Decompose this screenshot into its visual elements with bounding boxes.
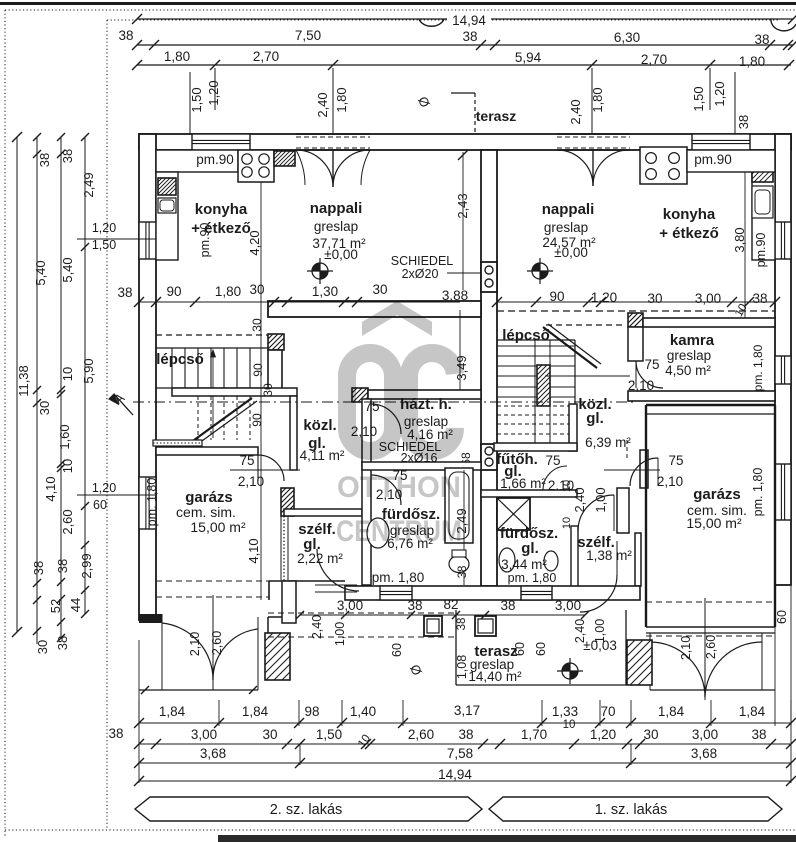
- svg-text:38: 38: [117, 285, 132, 300]
- door opening nappali-left: [296, 136, 370, 149]
- svg-text:±0,00: ±0,00: [324, 247, 358, 262]
- svg-text:5,40: 5,40: [33, 260, 48, 285]
- svg-text:1,20: 1,20: [712, 81, 727, 106]
- section marker A: [114, 394, 133, 415]
- svg-text:cem. sim.: cem. sim.: [176, 504, 236, 520]
- svg-text:konyha: konyha: [663, 206, 716, 223]
- window left wall pm90: [139, 222, 156, 259]
- svg-text:pm.90: pm.90: [196, 152, 234, 167]
- svg-text:14,40 m²: 14,40 m²: [468, 669, 522, 684]
- dashed lintel lines bottom left: [156, 580, 269, 582]
- party wall: [481, 150, 497, 586]
- hatch box right of cooktop left: [274, 151, 295, 166]
- bottom row 3: [139, 762, 791, 764]
- kazan boiler: [497, 498, 530, 530]
- svg-text:4,10: 4,10: [43, 476, 58, 501]
- svg-text:38: 38: [500, 598, 515, 613]
- svg-text:44: 44: [68, 598, 83, 612]
- svg-text:90: 90: [250, 413, 264, 427]
- stairs left treads: [156, 347, 268, 349]
- svg-text:3,17: 3,17: [454, 703, 480, 718]
- svg-text:konyha: konyha: [195, 201, 248, 218]
- svg-text:4,20: 4,20: [247, 230, 262, 255]
- svg-text:3,00: 3,00: [337, 598, 363, 613]
- svg-text:pm. 1,80: pm. 1,80: [372, 570, 425, 585]
- wall stair east: [268, 350, 282, 390]
- outer dotted border: [4, 10, 6, 836]
- wall szelf-left north: [284, 509, 362, 516]
- level mark terasz: [557, 658, 583, 684]
- svg-text:10: 10: [561, 517, 573, 529]
- svg-text:75: 75: [545, 453, 560, 468]
- garage left door arcs: [162, 623, 213, 680]
- left exterior wall: [139, 134, 156, 620]
- french door arcs nappali-left: [296, 150, 333, 187]
- svg-text:1,60: 1,60: [57, 424, 72, 449]
- svg-text:1,50: 1,50: [92, 238, 116, 252]
- chimney schiedel 2x16: [481, 444, 497, 470]
- window bottom left bath: [380, 586, 412, 600]
- svg-text:+ étkező: + étkező: [659, 225, 719, 242]
- window right wall pm90: [775, 222, 791, 259]
- cooktop left: [238, 150, 274, 182]
- svg-text:2,10: 2,10: [679, 636, 693, 660]
- svg-text:pm.90: pm.90: [198, 223, 212, 258]
- svg-text:2,70: 2,70: [641, 52, 667, 67]
- french door arcs nappali-right: [557, 150, 593, 186]
- garage right front wall: [646, 626, 775, 628]
- watermark house chevron: [362, 301, 432, 336]
- svg-text:38: 38: [457, 566, 469, 579]
- svg-text:2,40: 2,40: [572, 487, 587, 512]
- dashed lintel garage right: [646, 601, 775, 603]
- extension lines bottom: [138, 700, 140, 726]
- dim row B 38-750-38-630-38: [137, 44, 793, 46]
- svg-text:1,20: 1,20: [206, 80, 221, 105]
- wall futoh north: [494, 443, 577, 451]
- svg-text:38: 38: [456, 618, 468, 631]
- kamra west wall: [628, 327, 643, 361]
- svg-text:OTTHON: OTTHON: [337, 471, 461, 504]
- stairs left arrow: [212, 352, 214, 438]
- left col total 11,38: [16, 137, 18, 632]
- svg-text:15,00 m²: 15,00 m²: [686, 515, 742, 531]
- bottom wall main band: [345, 586, 640, 600]
- dim 2,49 rot bath: [463, 470, 465, 585]
- svg-text:2,40: 2,40: [315, 92, 330, 117]
- svg-text:pm. 1,80: pm. 1,80: [751, 344, 765, 391]
- wc left: [449, 556, 469, 573]
- dashed lines bottom middle: [268, 612, 456, 614]
- svg-text:lépcső: lépcső: [156, 351, 204, 368]
- svg-text:kamra: kamra: [670, 332, 715, 349]
- hatch band stairs right: [537, 365, 550, 406]
- window konyha-right top: [692, 134, 750, 150]
- svg-text:75: 75: [239, 453, 254, 468]
- label hexagon 2.sz lakas: [135, 797, 482, 821]
- svg-text:1,38 m²: 1,38 m²: [586, 548, 632, 563]
- svg-text:2. sz. lakás: 2. sz. lakás: [270, 802, 343, 818]
- svg-text:15,00 m²: 15,00 m²: [190, 519, 246, 535]
- svg-text:1,20: 1,20: [92, 221, 116, 235]
- svg-text:6,39 m²: 6,39 m²: [585, 435, 631, 450]
- counter top wall right: [687, 150, 775, 172]
- svg-text:4,11 m²: 4,11 m²: [300, 448, 345, 463]
- svg-text:lépcső: lépcső: [502, 327, 550, 344]
- wall garage north left: [156, 447, 258, 455]
- svg-text:60: 60: [513, 642, 527, 656]
- svg-text:±0,00: ±0,00: [554, 245, 588, 260]
- chimney schiedel 2x20: [481, 262, 497, 292]
- svg-text:10: 10: [561, 480, 573, 492]
- counter top wall left: [156, 150, 238, 172]
- svg-text:3,44 m²: 3,44 m²: [501, 557, 547, 572]
- door garage left: [258, 455, 284, 481]
- svg-text:2,60: 2,60: [408, 727, 434, 742]
- svg-text:1,80: 1,80: [590, 87, 605, 112]
- dim row total 14,94 top: [137, 18, 793, 20]
- sink left: [158, 198, 176, 213]
- door futoh: [543, 466, 567, 490]
- svg-text:1,33: 1,33: [552, 704, 578, 719]
- svg-text:3,00: 3,00: [555, 598, 581, 613]
- bathtub left: [445, 468, 473, 543]
- svg-text:2,10: 2,10: [657, 474, 683, 489]
- svg-text:3,68: 3,68: [691, 746, 717, 761]
- svg-text:38: 38: [736, 115, 751, 129]
- section line A-A: [133, 401, 637, 403]
- svg-text:90: 90: [251, 363, 265, 377]
- svg-text:1,80: 1,80: [215, 284, 241, 299]
- svg-text:2,60: 2,60: [704, 635, 718, 659]
- wc right: [544, 551, 558, 571]
- door hazth: [371, 404, 401, 434]
- window right wall garage pm180: [775, 464, 791, 520]
- inner dotted border: [106, 20, 108, 830]
- svg-text:1,30: 1,30: [312, 284, 338, 299]
- svg-text:2,60: 2,60: [210, 631, 224, 655]
- watermark O letter: [347, 353, 393, 451]
- svg-text:1,00: 1,00: [333, 622, 347, 646]
- svg-text:pm.90: pm.90: [754, 233, 768, 268]
- svg-text:11,38: 11,38: [16, 365, 31, 397]
- svg-text:30: 30: [372, 282, 387, 297]
- dim 2,43 line: [462, 152, 464, 290]
- svg-text:2,43: 2,43: [455, 193, 470, 218]
- window right wall kamra pm180: [775, 356, 791, 384]
- top exterior wall: [139, 134, 791, 150]
- garage right door arcs: [650, 642, 705, 697]
- door szelf right: [578, 495, 614, 531]
- svg-text:90: 90: [549, 289, 564, 304]
- svg-text:38: 38: [55, 636, 70, 650]
- svg-text:1,08: 1,08: [455, 655, 469, 679]
- left col 3: [60, 137, 62, 638]
- label hexagon 1.sz lakas: [489, 797, 782, 821]
- svg-text:75: 75: [644, 357, 659, 372]
- svg-text:5,40: 5,40: [60, 257, 75, 282]
- watermark C letter: [409, 353, 455, 451]
- svg-text:60: 60: [775, 610, 789, 624]
- washbasin left: [367, 518, 389, 548]
- svg-text:1,50: 1,50: [189, 87, 204, 112]
- svg-text:3,68: 3,68: [200, 746, 226, 761]
- dotted strip szelf left: [283, 516, 285, 580]
- post terrace 2: [475, 616, 496, 636]
- svg-text:30: 30: [643, 727, 658, 742]
- level mark nappali left: [307, 258, 333, 284]
- dims 3,00 38 82 row: [300, 614, 585, 616]
- svg-text:terasz: terasz: [476, 108, 516, 124]
- svg-text:30: 30: [261, 383, 275, 397]
- dashed stair line left: [156, 334, 268, 336]
- dotted strip garage left: [153, 440, 202, 446]
- svg-text:1,84: 1,84: [739, 704, 766, 719]
- svg-text:60: 60: [534, 642, 548, 656]
- svg-text:60: 60: [93, 498, 107, 512]
- garage right inner outline: [645, 405, 647, 627]
- dashed line stairs right: [546, 324, 626, 326]
- kamra south wall / garage north: [628, 391, 775, 401]
- svg-text:1,84: 1,84: [658, 704, 685, 719]
- svg-text:38: 38: [407, 598, 422, 613]
- wall szelf east upper: [617, 488, 629, 533]
- svg-text:2,49: 2,49: [81, 172, 96, 197]
- svg-text:2,40: 2,40: [573, 619, 587, 643]
- svg-text:pm. 1,80: pm. 1,80: [508, 571, 557, 585]
- svg-text:38: 38: [754, 32, 769, 47]
- garage right sill line: [650, 689, 775, 691]
- svg-text:7,50: 7,50: [295, 28, 321, 43]
- svg-text:98: 98: [304, 704, 319, 719]
- svg-text:30: 30: [35, 640, 50, 654]
- stairs left cut line: [190, 398, 252, 443]
- door kamra: [636, 361, 663, 388]
- wall kozl right west: [569, 404, 577, 451]
- garage left front wall: [139, 614, 162, 623]
- svg-text:greslap: greslap: [544, 220, 588, 235]
- svg-text:30: 30: [647, 291, 662, 306]
- svg-text:1,20: 1,20: [92, 481, 116, 495]
- svg-text:60: 60: [390, 643, 404, 657]
- kamra north wall: [643, 318, 775, 327]
- extension lines top rows: [214, 68, 216, 110]
- window-dim leader konyha left: [77, 238, 156, 240]
- szelf-left step walls: [269, 580, 345, 582]
- svg-text:2xØ20: 2xØ20: [402, 267, 439, 281]
- dim row C 180-270-594-270-180: [137, 64, 791, 66]
- svg-text:1,70: 1,70: [521, 727, 547, 742]
- svg-text:2,70: 2,70: [253, 49, 279, 64]
- entrance door right unit: [580, 575, 617, 612]
- svg-text:1,84: 1,84: [159, 704, 186, 719]
- extension lines plan to rows: [138, 640, 140, 724]
- threshold szelf left: [315, 584, 357, 586]
- page top border line: [0, 2, 796, 5]
- svg-text:3,00: 3,00: [191, 727, 217, 742]
- wall nappali-south left unit: [268, 301, 481, 317]
- svg-text:5,94: 5,94: [515, 50, 542, 65]
- drainer hatch left: [158, 178, 176, 195]
- svg-text:1,50: 1,50: [316, 727, 342, 742]
- svg-text:14,94: 14,94: [438, 767, 472, 782]
- svg-text:52: 52: [48, 599, 63, 613]
- door opening nappali-right: [557, 136, 630, 149]
- svg-text:1,80: 1,80: [164, 49, 190, 64]
- cooktop right: [640, 147, 687, 184]
- counter konyha right: [752, 172, 775, 260]
- svg-text:38: 38: [108, 726, 123, 741]
- svg-text:38: 38: [60, 149, 75, 163]
- svg-text:1,84: 1,84: [242, 704, 269, 719]
- svg-text:pm. 1,80: pm. 1,80: [145, 478, 159, 527]
- svg-text:75: 75: [668, 453, 683, 468]
- svg-text:82: 82: [443, 597, 458, 612]
- bottom row 4: [139, 780, 791, 782]
- svg-text:nappali: nappali: [542, 201, 595, 218]
- svg-text:közl.: közl.: [303, 417, 336, 434]
- svg-text:38: 38: [458, 727, 473, 742]
- svg-text:1,20: 1,20: [590, 727, 616, 742]
- svg-text:pm. 1,80: pm. 1,80: [751, 468, 765, 517]
- svg-text:38: 38: [751, 727, 766, 742]
- svg-text:nappali: nappali: [310, 200, 363, 217]
- counter konyha left: [156, 172, 178, 260]
- pillar szelf left: [281, 488, 294, 516]
- stairs left lower flight: [197, 396, 199, 440]
- svg-text:3,80: 3,80: [732, 227, 747, 252]
- wall fuerdo-szelf right: [481, 490, 577, 497]
- svg-text:1,80: 1,80: [739, 54, 765, 69]
- svg-text:70: 70: [600, 704, 615, 719]
- post X left: [265, 633, 290, 680]
- svg-text:5,90: 5,90: [81, 358, 96, 383]
- svg-text:1,40: 1,40: [350, 704, 376, 719]
- wall kozl west left: [290, 396, 297, 470]
- svg-text:1,66 m²: 1,66 m²: [500, 476, 546, 491]
- svg-text:1,20: 1,20: [591, 290, 617, 305]
- svg-text:38: 38: [752, 291, 767, 306]
- svg-text:90: 90: [166, 284, 181, 299]
- stairs right cut line: [543, 327, 597, 368]
- svg-text:30: 30: [249, 282, 264, 297]
- svg-text:3,00: 3,00: [692, 727, 718, 742]
- svg-text:30: 30: [250, 318, 264, 332]
- kamra pillar hatch: [628, 313, 643, 327]
- svg-text:30: 30: [37, 401, 52, 415]
- post X right: [627, 640, 652, 685]
- svg-text:38: 38: [37, 153, 52, 167]
- dim row y302 right: [497, 301, 775, 303]
- svg-text:1. sz. lakás: 1. sz. lakás: [595, 802, 668, 818]
- svg-text:38: 38: [118, 28, 133, 43]
- washbasin right: [499, 548, 515, 572]
- level mark nappali right: [527, 258, 553, 284]
- door garage right: [630, 458, 658, 486]
- bottom row 1: [139, 722, 791, 724]
- svg-text:3,00: 3,00: [695, 291, 721, 306]
- svg-text:7,58: 7,58: [447, 746, 473, 761]
- right exterior wall: [775, 134, 791, 585]
- svg-text:gl.: gl.: [586, 410, 604, 427]
- bottom row 2: [139, 743, 791, 745]
- svg-text:30: 30: [262, 727, 277, 742]
- svg-text:1,50: 1,50: [691, 86, 706, 111]
- post terrace 1: [424, 616, 442, 636]
- svg-text:3,88: 3,88: [442, 288, 468, 303]
- terasz top leader: [451, 92, 475, 94]
- garage left jambs: [257, 617, 259, 690]
- window-dim leader garage left: [77, 494, 156, 496]
- svg-text:4,10: 4,10: [246, 538, 261, 563]
- window bottom right bath: [521, 586, 552, 600]
- terasz slab: [455, 610, 457, 685]
- svg-text:2,10: 2,10: [188, 632, 202, 656]
- bottom scan strip: [218, 835, 796, 842]
- dashed line kamra top: [497, 310, 775, 312]
- svg-text:10: 10: [60, 367, 75, 381]
- stairs right treads: [497, 345, 575, 347]
- svg-text:1,00: 1,00: [593, 487, 608, 512]
- dim row y302 left: [139, 301, 460, 303]
- garage left sill line: [139, 689, 258, 691]
- svg-text:38: 38: [462, 29, 477, 44]
- window left wall garage pm180: [139, 477, 156, 529]
- svg-text:SCHIEDEL: SCHIEDEL: [391, 254, 454, 268]
- svg-text:38: 38: [31, 561, 46, 575]
- drainer hatch right: [752, 154, 773, 182]
- cloud arc right: [771, 19, 796, 31]
- door fuerdo left: [371, 475, 401, 505]
- svg-text:1,00: 1,00: [593, 619, 607, 643]
- svg-text:pm.90: pm.90: [694, 152, 732, 167]
- svg-text:2,40: 2,40: [310, 615, 324, 639]
- svg-text:2,99: 2,99: [79, 553, 94, 578]
- wall hazth north: [368, 390, 481, 399]
- svg-text:10: 10: [60, 459, 75, 473]
- svg-text:10: 10: [563, 719, 576, 731]
- left wall lower step: [268, 616, 282, 618]
- left col 2: [36, 137, 38, 644]
- pillar hazth: [352, 388, 368, 402]
- svg-text:75: 75: [364, 399, 379, 414]
- svg-text:gl.: gl.: [521, 540, 539, 557]
- svg-text:6,30: 6,30: [614, 30, 640, 45]
- svg-text:greslap: greslap: [667, 348, 711, 363]
- svg-text:38: 38: [55, 559, 70, 573]
- svg-text:2,10: 2,10: [238, 474, 264, 489]
- wall stairs south left: [172, 388, 297, 396]
- szelf left door arc: [317, 549, 359, 591]
- svg-text:2,40: 2,40: [568, 99, 583, 124]
- dim 3,80 label right unit: [744, 152, 746, 318]
- svg-text:CENTRUM: CENTRUM: [336, 515, 462, 548]
- pillar stairs left: [268, 334, 284, 350]
- wall szelf-garage right: [640, 450, 648, 488]
- svg-text:garázs: garázs: [693, 486, 741, 503]
- dim 3,49 line: [459, 310, 461, 395]
- cloud arc left: [419, 19, 444, 26]
- svg-text:2,22 m²: 2,22 m²: [297, 551, 343, 566]
- sink right: [752, 186, 773, 218]
- svg-text:14,94: 14,94: [452, 13, 486, 28]
- svg-text:2,60: 2,60: [60, 509, 75, 534]
- svg-text:greslap: greslap: [314, 219, 358, 234]
- left col 4: [84, 137, 86, 614]
- window konyha-left top: [192, 134, 250, 150]
- svg-text:4,50 m²: 4,50 m²: [665, 363, 711, 378]
- wall hazth west: [362, 399, 371, 585]
